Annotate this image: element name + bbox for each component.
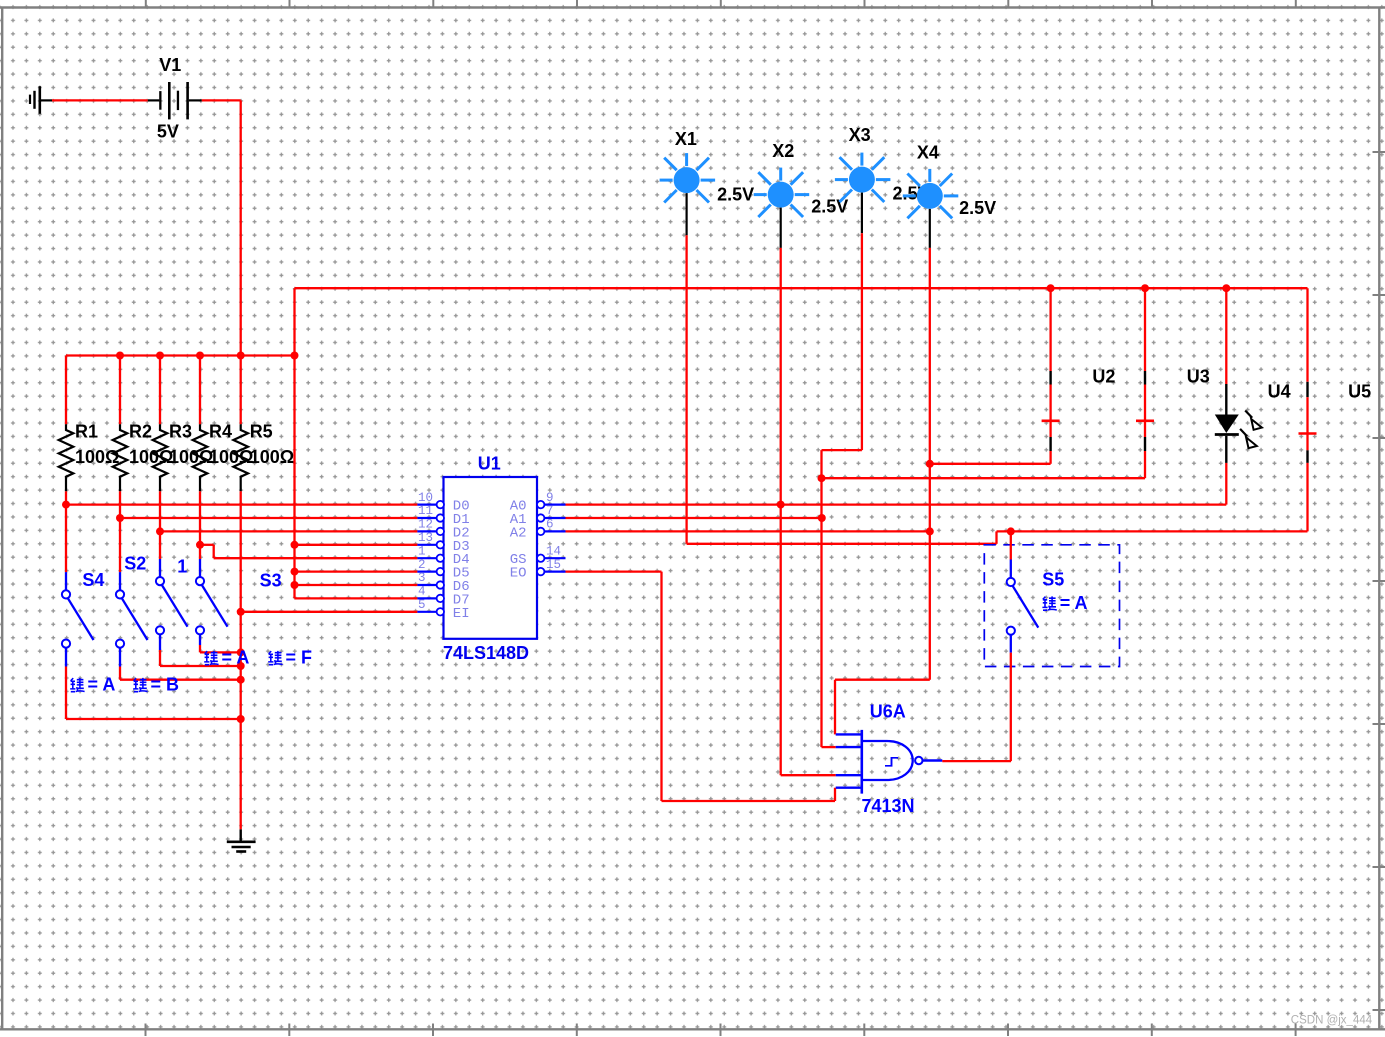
svg-text:R2: R2	[129, 422, 152, 442]
U1 pin 1 D4	[417, 544, 469, 568]
wire switch1 bottom to ground bus	[160, 650, 241, 666]
resistor R4 100ohm	[193, 424, 208, 491]
wire node R1 to U1 D0	[66, 503, 417, 505]
label S5	[1042, 570, 1064, 590]
watermark	[1291, 1015, 1373, 1027]
label 2.5V of X4	[959, 198, 996, 218]
svg-text:6: 6	[546, 518, 554, 532]
wire rail to R1 top	[65, 356, 67, 425]
wire rail to R4 top	[199, 356, 201, 425]
svg-text:U3: U3	[1187, 366, 1210, 386]
switch S5	[1007, 531, 1039, 652]
label 2.5V of X2	[811, 197, 848, 217]
svg-text:100Ω: 100Ω	[129, 447, 173, 467]
label key = A	[204, 648, 249, 668]
svg-text:EO: EO	[510, 566, 527, 582]
label R5	[250, 422, 273, 442]
label 2.5V of X1	[717, 185, 754, 205]
switch S4	[62, 505, 94, 667]
U1 pin 13 D3	[417, 531, 469, 555]
wire rail to R2 top	[119, 356, 121, 425]
svg-text:R3: R3	[169, 422, 192, 442]
label 100ohm of R3	[169, 447, 213, 467]
wire X2 down to NAND pin3	[781, 248, 836, 775]
label S3	[260, 571, 282, 591]
U1 pin 5 EI	[417, 598, 469, 622]
sheet border left edge	[1, 8, 3, 1031]
svg-text:15: 15	[546, 558, 561, 572]
label X3	[849, 125, 871, 145]
svg-text:2: 2	[418, 558, 426, 572]
U1 pin 7 A1	[510, 504, 566, 528]
switch S1 (labelled 1)	[156, 531, 188, 650]
svg-text:X3: X3	[849, 125, 871, 145]
wire R1 bottom to node	[65, 491, 67, 504]
svg-text:12: 12	[418, 518, 433, 532]
svg-text:14: 14	[546, 544, 561, 558]
svg-text:100Ω: 100Ω	[169, 447, 213, 467]
junction dots on +5V rail	[116, 352, 299, 360]
wire S3 bottom to ground bus	[200, 645, 241, 652]
wire +5V top bus to LED column tops	[295, 287, 1308, 289]
wire node R4 jog to U1 D4	[200, 545, 417, 558]
svg-text:= F: = F	[286, 648, 313, 668]
svg-text:U1: U1	[478, 453, 501, 473]
LED U4	[1215, 288, 1262, 463]
wire X3 down jog to NAND pin2	[822, 233, 862, 747]
svg-text:R4: R4	[209, 422, 232, 442]
sheet border bottom ruler line	[0, 1024, 1385, 1037]
U1 pin 15 EO	[510, 558, 566, 582]
U1 pin 6 A2	[510, 518, 566, 542]
wire U1 A0 to U4 bottom	[566, 463, 1227, 505]
wire ground bus to U1 EI	[241, 611, 418, 613]
svg-text:13: 13	[418, 531, 433, 545]
resistor R5 100ohm	[233, 424, 248, 491]
svg-text:= A: = A	[222, 648, 250, 668]
label X1	[675, 129, 697, 149]
wire X4 down jog to NAND pin1	[835, 248, 930, 735]
label R1	[75, 422, 98, 442]
label R2	[129, 422, 152, 442]
label 7413N	[862, 796, 915, 816]
label U2	[1092, 366, 1115, 386]
svg-text:X4: X4	[917, 143, 939, 163]
resistor R1 100ohm	[59, 424, 74, 491]
wire rail to R5 top	[240, 356, 242, 425]
label U5	[1348, 382, 1371, 402]
wire battery+ to bus corner	[202, 100, 241, 355]
label 2.5V of X3	[893, 183, 930, 203]
U1 pin 11 D1	[417, 504, 469, 528]
lamp X3 2.5V	[835, 153, 891, 234]
resistor R2 100ohm	[113, 424, 128, 491]
battery V1 5V	[148, 82, 202, 119]
svg-text:S3: S3	[260, 571, 282, 591]
label U6A	[870, 701, 906, 721]
label key = A	[1042, 593, 1087, 613]
svg-text:5: 5	[418, 598, 426, 612]
label S4	[82, 570, 104, 590]
switch S5 dashed selection box	[984, 545, 1119, 667]
wire S5 bottom to NAND output	[1010, 653, 1012, 762]
svg-text:X1: X1	[675, 129, 697, 149]
svg-text:3: 3	[418, 571, 426, 585]
wire R3 bottom to node	[159, 491, 161, 531]
label 100ohm of R2	[129, 447, 173, 467]
svg-text:S4: S4	[82, 570, 104, 590]
U1 pin 10 D0	[417, 491, 469, 515]
wire X1 down and across to S5/U5 net	[687, 235, 1308, 544]
wire R4 bottom to node	[199, 491, 201, 545]
wire +5V down feed x294	[293, 288, 295, 598]
svg-text:A2: A2	[510, 525, 527, 541]
label 100ohm of R4	[209, 447, 253, 467]
svg-text:7: 7	[546, 504, 554, 518]
svg-text:1: 1	[418, 544, 426, 558]
label U3	[1187, 366, 1210, 386]
svg-text:1: 1	[177, 557, 187, 577]
lamp X4 2.5V	[903, 169, 959, 248]
svg-text:U2: U2	[1092, 366, 1115, 386]
lamp X1 2.5V	[660, 153, 716, 235]
svg-text:74LS148D: 74LS148D	[443, 643, 529, 663]
LED U2	[1042, 288, 1060, 464]
wire NAND output to S5	[942, 760, 1011, 762]
label X4	[917, 143, 939, 163]
svg-text:9: 9	[546, 491, 554, 505]
svg-text:= A: = A	[88, 675, 116, 695]
wire S4 bottom to ground bus	[66, 667, 241, 720]
svg-text:10: 10	[418, 491, 433, 505]
wire R5 bottom to ground bus	[240, 491, 242, 829]
svg-text:11: 11	[418, 504, 433, 518]
label U4	[1268, 382, 1291, 402]
svg-text:S2: S2	[124, 553, 146, 573]
svg-text:S5: S5	[1042, 570, 1064, 590]
label V1	[159, 55, 181, 75]
U1 pin 12 D2	[417, 518, 469, 542]
label R4	[209, 422, 232, 442]
wire ground to battery V1	[52, 99, 148, 101]
label U1	[478, 453, 501, 473]
wire U1 A1 to X3 net	[566, 517, 822, 519]
wire to U1 D5	[295, 570, 418, 572]
wire rail to R3 top	[159, 356, 161, 425]
wire node R3 to U1 D2	[160, 530, 417, 532]
wire +5V rail above resistors	[66, 354, 295, 356]
switch S3	[196, 545, 228, 645]
wire U1 A2 to X4 net	[566, 530, 930, 532]
label 100ohm of R5	[250, 447, 294, 467]
ground GND2 (bottom of bus)	[227, 829, 256, 851]
junction dots resistor nodes	[62, 501, 299, 616]
svg-text:= B: = B	[151, 675, 180, 695]
svg-text:= A: = A	[1060, 593, 1088, 613]
ground GND1 (left of battery, rotated)	[30, 86, 52, 114]
lamp X2 2.5V	[754, 168, 810, 248]
U1 pin 2 D5	[417, 558, 469, 582]
svg-text:CSDN @jx_444: CSDN @jx_444	[1291, 1015, 1373, 1027]
svg-text:R1: R1	[75, 422, 98, 442]
LED U3	[1136, 288, 1154, 478]
svg-text:2.5V: 2.5V	[959, 198, 996, 218]
resistor R3 100ohm	[153, 424, 168, 491]
wire to U1 D6	[295, 584, 418, 586]
svg-text:100Ω: 100Ω	[75, 447, 119, 467]
svg-text:U4: U4	[1268, 382, 1291, 402]
junction dots on output nets	[777, 460, 1015, 536]
wire U1 EO to NAND pin4	[566, 572, 836, 801]
U1 pin 9 A0	[510, 491, 566, 515]
junction dots on top bus	[1047, 284, 1231, 292]
label R3	[169, 422, 192, 442]
label key = F	[268, 648, 312, 668]
svg-text:V1: V1	[159, 55, 181, 75]
sheet border top ruler line	[0, 0, 1385, 8]
U1 pin 4 D7	[417, 585, 469, 609]
label 100ohm of R1	[75, 447, 119, 467]
svg-text:U6A: U6A	[870, 701, 906, 721]
wire to U1 D3	[295, 544, 418, 546]
NAND gate U6A 7413N	[836, 730, 943, 794]
wire R2 bottom to node	[119, 491, 121, 518]
junction dots on ground bus	[237, 648, 245, 723]
svg-text:2.5V: 2.5V	[717, 185, 754, 205]
label key = A	[70, 675, 115, 695]
label X2	[772, 141, 794, 161]
wire S2 bottom to ground bus	[120, 667, 241, 680]
wire node R2 to U1 D1	[120, 517, 417, 519]
svg-text:100Ω: 100Ω	[209, 447, 253, 467]
label S2	[124, 553, 146, 573]
svg-text:5V: 5V	[157, 121, 179, 141]
svg-text:U5: U5	[1348, 382, 1371, 402]
sheet border right edge with ruler ticks	[1373, 8, 1385, 1031]
label 5V	[157, 121, 179, 141]
svg-text:EI: EI	[453, 606, 470, 622]
svg-text:R5: R5	[250, 422, 273, 442]
svg-text:100Ω: 100Ω	[250, 447, 294, 467]
label key = B	[133, 675, 179, 695]
label 1 (S1)	[177, 557, 187, 577]
LED U5	[1299, 288, 1317, 531]
switch S2	[116, 518, 148, 667]
IC U1 74LS148D body	[444, 477, 538, 639]
wire to U1 D7	[295, 597, 418, 599]
label 74LS148D	[443, 643, 529, 663]
wire U3 bottom to X3 net	[822, 477, 1146, 479]
svg-text:4: 4	[418, 585, 426, 599]
svg-text:X2: X2	[772, 141, 794, 161]
U1 pin 14 GS	[510, 544, 566, 568]
wire U2 bottom to X4 net	[930, 463, 1051, 465]
U1 pin 3 D6	[417, 571, 469, 595]
svg-text:7413N: 7413N	[862, 796, 915, 816]
